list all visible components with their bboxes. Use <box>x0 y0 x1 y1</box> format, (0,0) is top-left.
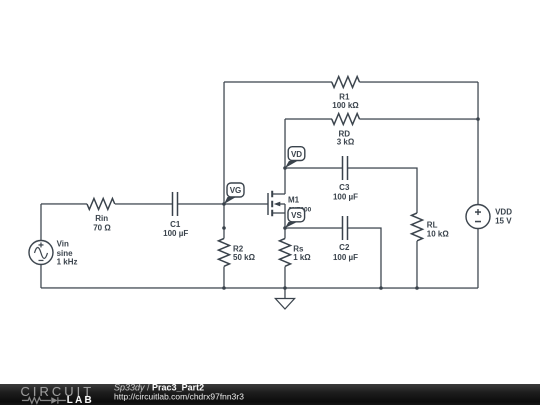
wire: input top from Vin to Rin <box>41 203 87 205</box>
wire: R1 left segment <box>224 81 332 83</box>
wire: RD left segment <box>285 118 332 120</box>
wire: C2 right and down <box>348 228 381 288</box>
wire: gate vertical to R1 <box>223 82 225 204</box>
junction node bottom ground <box>283 286 287 290</box>
wire: drain vertical <box>284 119 286 194</box>
resistor R1 <box>332 77 360 88</box>
voltage source VDD <box>466 205 490 229</box>
wire: RD right segment <box>359 118 478 120</box>
voltage source Vin <box>29 240 53 264</box>
junction node VS <box>283 226 287 230</box>
mosfet M1 <box>268 191 285 217</box>
wire: VD horizontal to C3 <box>285 167 342 169</box>
svg-text:LAB: LAB <box>67 395 94 405</box>
junction node bottom R2 <box>222 286 226 290</box>
junction node bottom C2 <box>379 286 383 290</box>
junction node bottom RL <box>415 286 419 290</box>
CircuitLab logo squiggle <box>22 397 66 404</box>
wire: R2 vertical top <box>223 204 225 239</box>
junction node RD right <box>476 117 480 121</box>
svg-text:http://circuitlab.com/chdrx97f: http://circuitlab.com/chdrx97fnn3r3 <box>114 392 244 402</box>
wire: Vin vertical bottom <box>40 264 42 288</box>
ground <box>275 288 294 309</box>
wire: R2 vertical bottom <box>223 266 225 288</box>
resistor Rs <box>279 239 290 267</box>
resistor R2 <box>218 238 229 266</box>
wire: Rs bottom <box>284 267 286 289</box>
resistor Rin <box>87 198 115 209</box>
junction node R2 top <box>222 226 226 230</box>
wire: RL bottom <box>416 241 418 288</box>
resistor RD <box>332 114 360 125</box>
capacitor C2 <box>342 216 347 240</box>
wire: C1 to MOSFET gate <box>178 203 268 205</box>
wire: right vertical VDD bottom <box>477 229 479 288</box>
node tag VD <box>285 147 305 168</box>
capacitor C1 <box>172 192 177 216</box>
resistor RL <box>411 213 422 241</box>
node tag VS <box>285 208 305 228</box>
wire: VS horizontal to C2 <box>285 227 342 229</box>
wire: right vertical VDD top <box>477 82 479 205</box>
node tag VG <box>224 183 244 204</box>
wire: C3 to RL top <box>348 168 417 213</box>
junction node VD <box>283 166 287 170</box>
wire: R1 right segment <box>359 81 478 83</box>
wire: Vin vertical top <box>40 204 42 241</box>
capacitor C3 <box>343 156 348 180</box>
footer bar <box>0 384 540 405</box>
wire: source vertical to Rs <box>284 213 286 239</box>
junction node gate-VG <box>222 202 226 206</box>
wire: Rin to C1 <box>115 203 172 205</box>
wire: bottom rail <box>41 287 478 289</box>
